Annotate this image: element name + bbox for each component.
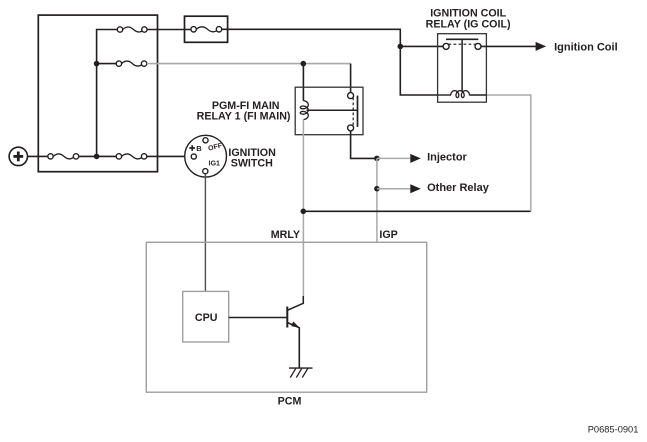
wire battery to fuse box (28, 155, 51, 157)
relay contact top (348, 93, 354, 99)
relay coil L2 (451, 91, 470, 98)
node junction at ignition coil relay feed (398, 44, 404, 50)
wire CPU to transistor base (229, 317, 288, 319)
node other relay junction (374, 186, 380, 192)
battery (9, 147, 27, 165)
ground (289, 368, 313, 378)
fuse F3 row2 (116, 61, 147, 66)
arrow other relay (410, 184, 421, 193)
relay armature bar (357, 96, 359, 127)
wire row3 mid (79, 155, 119, 157)
svg-text:RELAY (IG COIL): RELAY (IG COIL) (426, 18, 511, 30)
relay dashed line (352, 98, 354, 127)
svg-text:IG1: IG1 (209, 160, 220, 167)
wire row2 gray to PGM-FI relay (147, 63, 351, 65)
label IGNITION SWITCH (228, 147, 276, 169)
relay contact bar (446, 38, 478, 40)
svg-text:MRLY: MRLY (271, 229, 300, 241)
wire IGP gray (376, 158, 378, 242)
relay contact right (475, 43, 481, 49)
transistor Q1 (287, 303, 304, 328)
junction dot row3 (94, 154, 100, 160)
CPU box (183, 291, 229, 342)
junction dot row2 (94, 61, 100, 67)
svg-text:IGP: IGP (379, 229, 397, 241)
wire MRLY junction to IG relay coil return (303, 210, 531, 212)
fuse F2 external (191, 27, 222, 32)
svg-text:P0685-0901: P0685-0901 (588, 425, 639, 435)
fuse F1 top row (117, 27, 147, 32)
PGM-FI relay box (295, 87, 363, 135)
svg-text:Ignition Coil: Ignition Coil (554, 41, 618, 53)
relay contact left (443, 43, 449, 49)
wire PGM relay contact drop (350, 64, 352, 93)
svg-text:CPU: CPU (195, 312, 218, 324)
external fuse box (185, 16, 228, 42)
ignition switch terminal +B (191, 154, 196, 159)
node junction row2 coil feed (301, 61, 307, 67)
wire gray IG relay coil return (486, 95, 530, 211)
node MRLY junction (301, 209, 307, 215)
arrow ignition coil (536, 42, 547, 51)
label IGNITION COIL RELAY (426, 8, 511, 31)
svg-text:PCM: PCM (278, 396, 302, 408)
wire other relay arrow lead (377, 188, 410, 190)
ignition switch terminal OFF (203, 138, 208, 143)
label PGM-FI MAIN RELAY 1 (197, 100, 291, 123)
ignition switch body (185, 135, 227, 177)
PCM box (146, 242, 426, 392)
relay dashed line (444, 43, 481, 45)
relay coil L1 (300, 101, 308, 120)
wire coil to armature (307, 109, 358, 111)
wire collector to MRLY (302, 296, 304, 304)
wire emitter to ground (298, 328, 300, 369)
relay contact bottom (348, 125, 354, 131)
svg-text:RELAY 1 (FI MAIN): RELAY 1 (FI MAIN) (197, 110, 291, 122)
ignition switch terminal IG1 (203, 169, 208, 174)
svg-text:B: B (196, 144, 202, 153)
wire injector arrow lead (377, 157, 410, 159)
wire junction to relay contact (400, 45, 443, 47)
wire to ignition coil arrow (481, 45, 536, 47)
svg-text:SWITCH: SWITCH (231, 158, 273, 170)
svg-text:Other Relay: Other Relay (427, 182, 490, 194)
wire MRLY gray (302, 119, 304, 296)
wire coil lead left (438, 94, 452, 96)
ignition coil relay box (438, 34, 487, 103)
wire row1 to external fuse (147, 29, 191, 31)
wire row1 top fuse feed (97, 30, 120, 157)
wire coil lead right (469, 94, 486, 96)
relay armature line (461, 39, 463, 91)
svg-text:Injector: Injector (427, 152, 467, 164)
fuse F5 row3 right (116, 154, 147, 159)
wire row2 to fuse (97, 63, 119, 65)
arrow injector (410, 154, 421, 163)
node injector junction (374, 156, 380, 162)
wire row1 to ignition coil relay (222, 29, 438, 95)
wire row3 to ignition switch (147, 155, 191, 157)
wire contact to injector row (351, 131, 377, 159)
fuse F4 row3 left (48, 154, 79, 159)
wire ignition switch to CPU (204, 174, 206, 292)
fuse box (38, 15, 157, 172)
wire junction to coil (302, 64, 304, 101)
label +B (189, 144, 202, 153)
